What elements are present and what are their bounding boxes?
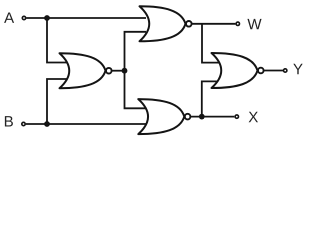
junction on wire X xyxy=(199,114,205,120)
label A xyxy=(4,13,14,23)
wire G1 output xyxy=(112,70,125,72)
wire G4 output to Y xyxy=(264,70,283,72)
junction at G1 output xyxy=(122,68,128,74)
wire B horizontal xyxy=(26,123,146,125)
wire A branch to G1 top input xyxy=(47,18,68,63)
input terminal A xyxy=(22,16,25,19)
input terminal B xyxy=(22,122,25,125)
wire A horizontal xyxy=(26,17,146,19)
junction on wire B xyxy=(44,121,50,127)
output terminal X xyxy=(235,115,238,118)
wire G2 output to W xyxy=(192,23,236,25)
wire G3 output to X xyxy=(190,116,234,118)
NOR gate U1 (middle) xyxy=(60,53,112,88)
output terminal Y xyxy=(284,69,287,72)
junction on wire A xyxy=(44,15,50,21)
wire G1 output to G3 upper input xyxy=(125,71,147,109)
wire X tee to G4 bottom input xyxy=(202,81,219,116)
wire G1 output to G2 lower input xyxy=(125,32,147,71)
NOR gate U4 (right, output Y) xyxy=(212,53,264,88)
wire B branch to G1 bottom input xyxy=(47,79,68,124)
label B xyxy=(5,116,13,126)
label W xyxy=(247,19,261,29)
label Y xyxy=(293,64,302,74)
output terminal W xyxy=(236,22,239,25)
label X xyxy=(249,112,258,122)
wire W tee to G4 top input xyxy=(202,24,219,63)
NOR gate U2 (top, output W) xyxy=(140,6,192,41)
NOR gate U3 (bottom, output X) xyxy=(138,99,190,134)
